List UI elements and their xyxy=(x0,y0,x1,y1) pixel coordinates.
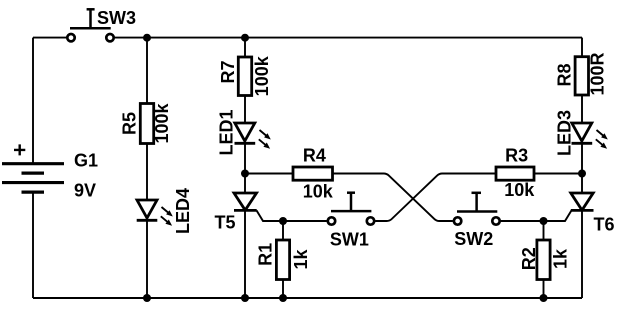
wire right vertical LED3-T6 xyxy=(581,143,583,193)
svg-text:100k: 100k xyxy=(152,102,172,143)
svg-text:SW1: SW1 xyxy=(330,230,369,250)
wire R2 top xyxy=(543,221,545,240)
wire R7 branch upper xyxy=(244,38,246,57)
svg-text:T6: T6 xyxy=(594,215,615,235)
wire LED1-T5 xyxy=(244,143,246,193)
svg-text:1k: 1k xyxy=(291,249,311,270)
svg-text:LED1: LED1 xyxy=(217,109,237,155)
node LED1-R4 xyxy=(241,170,249,178)
svg-text:R1: R1 xyxy=(256,243,276,266)
svg-text:LED4: LED4 xyxy=(173,188,193,234)
wire left vertical xyxy=(32,38,34,163)
wire R4 to SW2 diagonal xyxy=(333,174,453,222)
node bottom R1 xyxy=(279,294,287,302)
svg-text:R8: R8 xyxy=(555,63,575,86)
battery G1 xyxy=(2,164,64,192)
svg-text:R2: R2 xyxy=(519,247,539,270)
svg-text:SW2: SW2 xyxy=(454,229,493,249)
svg-text:R7: R7 xyxy=(218,60,238,83)
svg-text:LED3: LED3 xyxy=(555,110,575,156)
wire right vertical R8-LED3 xyxy=(581,95,583,124)
node gate-R1 xyxy=(279,217,287,225)
resistor R7 body xyxy=(238,57,251,96)
node bottom T5 xyxy=(241,294,249,302)
wire bottom xyxy=(33,297,582,299)
wire R5-LED4 xyxy=(146,144,148,201)
node bottom R5 branch xyxy=(143,294,151,302)
svg-text:SW3: SW3 xyxy=(97,8,136,28)
switch SW3 xyxy=(67,34,113,41)
wire R4 left xyxy=(245,173,293,175)
LED LED1 xyxy=(235,123,256,143)
switch SW1 xyxy=(328,217,374,224)
svg-text:9V: 9V xyxy=(74,181,96,201)
svg-text:R5: R5 xyxy=(120,112,140,135)
battery plus sign xyxy=(14,144,25,155)
LED4 arrows xyxy=(161,207,173,226)
wire T5-bottom xyxy=(244,210,246,298)
svg-text:G1: G1 xyxy=(74,151,98,171)
node top R5 xyxy=(143,34,151,42)
resistor R2 body xyxy=(537,240,550,280)
wire R3 to SW1 diagonal xyxy=(375,174,496,222)
LED3 arrows xyxy=(596,130,608,149)
resistor R4 body xyxy=(293,167,333,180)
LED LED3 xyxy=(572,123,593,143)
node gate-R2 xyxy=(540,217,548,225)
resistor R1 body xyxy=(276,240,289,280)
wire R5 branch upper xyxy=(146,38,148,104)
node bottom R2 xyxy=(540,294,548,302)
wire right vertical top xyxy=(581,38,583,57)
wire top left segment xyxy=(33,37,66,39)
svg-text:R3: R3 xyxy=(505,145,528,165)
wire R2 bottom xyxy=(543,280,545,299)
node R3-right branch xyxy=(578,170,586,178)
svg-text:10k: 10k xyxy=(504,180,535,200)
thyristor T6 xyxy=(571,193,594,210)
svg-text:T5: T5 xyxy=(215,213,236,233)
node top R7 xyxy=(241,34,249,42)
LED1 arrows xyxy=(259,130,271,149)
wire top main segment xyxy=(115,37,582,39)
wire right vertical T6-bottom xyxy=(581,210,583,298)
resistor R5 body xyxy=(140,104,153,144)
resistor R8 body xyxy=(575,57,588,95)
wire R7-LED1 xyxy=(244,96,246,124)
wire LED4-bottom xyxy=(146,220,148,298)
wire R1 bottom xyxy=(282,280,284,299)
thyristor T5 xyxy=(234,193,257,210)
switch SW2 xyxy=(454,217,500,224)
svg-text:R4: R4 xyxy=(303,145,326,165)
wire R1 top xyxy=(282,221,284,240)
svg-text:100k: 100k xyxy=(252,55,272,96)
resistor R3 body xyxy=(496,167,534,180)
LED LED4 xyxy=(137,200,158,220)
wire R3 right xyxy=(534,173,582,175)
wire T6 gate xyxy=(501,210,572,221)
wire T5 gate xyxy=(257,210,327,221)
svg-text:100R: 100R xyxy=(588,52,608,95)
wire left vertical lower xyxy=(32,192,34,298)
svg-text:1k: 1k xyxy=(551,248,571,269)
svg-text:10k: 10k xyxy=(303,181,334,201)
